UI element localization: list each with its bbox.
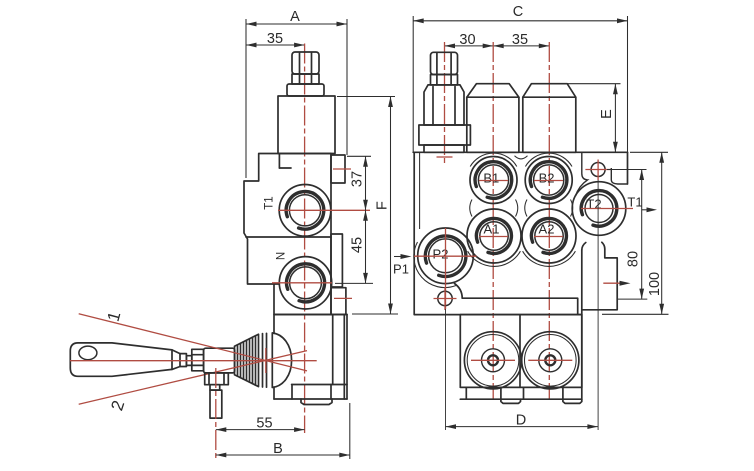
- fillet B1-B2 top: [515, 156, 528, 159]
- lever nut: [192, 349, 204, 371]
- dim 35: [246, 31, 305, 47]
- T1 callout: [627, 195, 657, 213]
- relief cartridge: [419, 125, 471, 145]
- top-right pad: [576, 152, 588, 196]
- body top edge: [413, 151, 627, 153]
- dim E: [599, 84, 616, 153]
- dim 100: [647, 152, 663, 314]
- bolt hole centerline / D ext right: [597, 180, 599, 430]
- C ext lines: [412, 16, 414, 152]
- svg-text:E: E: [599, 109, 615, 119]
- red pivot tick: [265, 348, 267, 373]
- svg-text:35: 35: [267, 31, 283, 47]
- relief hex (right view): [431, 52, 458, 85]
- port A1: [467, 209, 521, 263]
- side tab top: [331, 155, 345, 183]
- 80 ext bottom: [617, 298, 647, 300]
- pad halo A2: [523, 251, 576, 266]
- drain tube: [210, 390, 222, 418]
- red centerline N: [272, 282, 332, 284]
- svg-text:2: 2: [107, 398, 128, 413]
- outlet red arrow: [603, 281, 630, 286]
- B ext right: [349, 403, 351, 459]
- drain fitting: [205, 373, 229, 390]
- E ext top: [567, 83, 620, 85]
- relief spring housing: [278, 96, 335, 154]
- red tube centerline: [215, 368, 217, 458]
- svg-text:100: 100: [647, 272, 663, 296]
- svg-text:B: B: [273, 441, 283, 457]
- red centerline T2: [581, 208, 633, 210]
- pad halo A1: [468, 251, 521, 266]
- lever joint block: [204, 348, 235, 373]
- dim 45: [349, 210, 365, 283]
- port T1 boss: [279, 185, 331, 237]
- right lug: [582, 249, 617, 399]
- dim A: [246, 9, 347, 25]
- P1 callout: [393, 254, 411, 277]
- port A2: [522, 209, 576, 263]
- D ext left: [445, 309, 447, 430]
- dim D: [446, 413, 598, 429]
- lower block feet: [501, 399, 521, 403]
- side tab bottom: [331, 288, 346, 315]
- svg-text:T1: T1: [627, 195, 642, 210]
- F ext bottom: [352, 313, 398, 315]
- dim 80: [625, 170, 641, 300]
- lever rod pieces: [186, 356, 191, 366]
- fillet B2-A2 right: [571, 200, 573, 217]
- spool cap 2: [523, 84, 576, 153]
- 80 ext top: [607, 169, 647, 171]
- T2 lug fillets: [582, 242, 605, 250]
- spool 2 centerline: [548, 42, 550, 400]
- pad halo B1: [470, 153, 517, 166]
- body outline right view: [414, 152, 627, 314]
- svg-text:A1: A1: [484, 222, 500, 237]
- svg-text:P1: P1: [393, 262, 409, 277]
- dim 30: [445, 32, 494, 48]
- red centerline A1: [479, 236, 508, 238]
- P2 pad halo: [414, 242, 456, 288]
- svg-text:C: C: [513, 4, 523, 20]
- red tick tab top: [333, 168, 351, 170]
- svg-text:1: 1: [104, 309, 125, 323]
- svg-text:B2: B2: [539, 170, 555, 185]
- ext line 37 top: [347, 155, 371, 157]
- svg-text:A2: A2: [539, 222, 555, 237]
- A extension lines: [245, 19, 247, 178]
- dim F: [374, 97, 390, 315]
- spool 1 centerline: [492, 42, 494, 400]
- red lever position line 1: [79, 314, 307, 371]
- bellows boot: [235, 333, 273, 387]
- red tick tab bottom: [334, 297, 352, 299]
- pad inner edge left: [419, 152, 421, 229]
- svg-text:37: 37: [349, 171, 365, 187]
- svg-text:80: 80: [625, 251, 641, 267]
- fillet B2-A2 left: [525, 200, 527, 217]
- port B1: [470, 157, 517, 204]
- pad halo B2: [525, 153, 572, 166]
- relief valve hex nut: [292, 52, 319, 74]
- svg-text:T1: T1: [264, 196, 276, 209]
- red centerline T1: [278, 209, 370, 211]
- red lever position line 2: [79, 351, 307, 405]
- dim C: [413, 4, 627, 21]
- bolt hole top: [585, 160, 610, 181]
- housing foot tab: [301, 399, 332, 405]
- relief collar: [287, 84, 324, 96]
- dim 55: [216, 416, 305, 432]
- relief jam band: [292, 74, 319, 84]
- bolt hole bottom: [434, 288, 457, 311]
- svg-text:D: D: [516, 413, 526, 429]
- red centerline P2: [414, 255, 477, 257]
- svg-text:30: 30: [459, 32, 475, 48]
- svg-text:35: 35: [512, 32, 528, 48]
- svg-text:T2: T2: [586, 197, 601, 212]
- svg-text:45: 45: [349, 237, 365, 253]
- red centerline B2: [534, 180, 563, 182]
- port P2: [418, 228, 474, 284]
- red centerline B1: [479, 180, 508, 182]
- svg-text:A: A: [290, 9, 300, 25]
- fillet B1-A1 right: [516, 200, 518, 217]
- spool cap 1: [467, 84, 519, 153]
- relief centerline (right view): [444, 42, 446, 163]
- svg-text:N: N: [276, 252, 288, 260]
- dim 37: [349, 156, 365, 210]
- F ext top: [337, 96, 395, 98]
- port B2: [525, 157, 572, 204]
- svg-text:B1: B1: [483, 170, 499, 185]
- body outline left view: [244, 154, 347, 315]
- 100 ext top: [630, 151, 668, 153]
- pump bore 2: [522, 332, 579, 389]
- lever housing: [274, 315, 347, 400]
- svg-text:55: 55: [256, 416, 272, 432]
- port T2: [572, 182, 626, 236]
- handle hole 0: [79, 346, 97, 360]
- dim B: [216, 441, 350, 457]
- lower block: [460, 315, 582, 400]
- bottom pad rail: [455, 284, 578, 315]
- pump bore 1: [464, 332, 521, 389]
- relief locknut: [424, 85, 464, 125]
- fillet B1-A1 left: [470, 200, 472, 217]
- port N boss: [279, 257, 331, 309]
- svg-text:F: F: [374, 201, 390, 210]
- centerline relief/body: [304, 44, 306, 434]
- 100 ext bottom: [602, 313, 669, 315]
- red centerline A2: [534, 236, 563, 238]
- side tab middle: [331, 234, 342, 287]
- handle: [70, 343, 180, 376]
- dim 35 (right view): [493, 32, 549, 48]
- red lever centerline: [70, 360, 317, 362]
- ext line N right: [335, 282, 373, 284]
- ball joint dome: [272, 333, 291, 387]
